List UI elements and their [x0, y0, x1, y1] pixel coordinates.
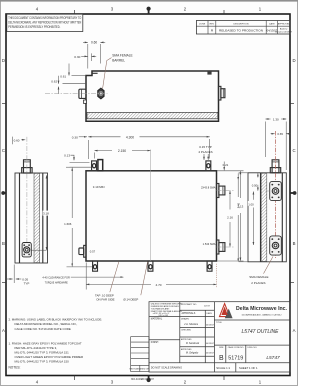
- svg-text:1.543 SMA: 1.543 SMA: [203, 242, 216, 246]
- dim 1.606 (left height): [66, 166, 70, 168]
- left view flange outline: [15, 173, 48, 263]
- callout tap deep far side: [110, 262, 119, 292]
- dim 4.300: [87, 140, 89, 159]
- svg-text:R. Sandoval: R. Sandoval: [186, 342, 199, 345]
- svg-text:SHEET 1 OF 1: SHEET 1 OF 1: [239, 366, 258, 370]
- svg-text:DO NOT SCALE DRAWING: DO NOT SCALE DRAWING: [151, 366, 182, 369]
- revision table: [196, 21, 292, 35]
- svg-text:4 PLACES: 4 PLACES: [198, 150, 212, 154]
- title block signature column: [181, 303, 215, 355]
- svg-text:1. FINISH: HAZE GRAY EPOXY POL: 1. FINISH: HAZE GRAY EPOXY POLYAMIDE TOP…: [9, 341, 82, 345]
- left view face connector: [22, 243, 31, 257]
- dim 2.150: [95, 150, 113, 152]
- right view top SMA stub: [272, 160, 279, 173]
- svg-text:FINISH: FINISH: [151, 342, 159, 344]
- svg-text:2.46: 2.46: [237, 202, 241, 208]
- svg-text:Delta Microwave Inc.: Delta Microwave Inc.: [236, 306, 288, 312]
- side view right connector: [219, 86, 221, 100]
- dim 2.46 (right view height): [237, 173, 239, 180]
- dim 0.61 (left stack): [72, 75, 87, 77]
- svg-text:4.300: 4.300: [126, 135, 134, 139]
- svg-text:2.150: 2.150: [118, 149, 126, 153]
- svg-text:L5747: L5747: [266, 355, 280, 361]
- svg-text:3.18: 3.18: [43, 212, 49, 216]
- svg-text:A: A: [2, 328, 5, 333]
- top view stub top-left: [98, 160, 103, 171]
- svg-text:B: B: [2, 241, 5, 246]
- centering mark top: [147, 7, 151, 14]
- svg-text:PERMISSION IS EXPRESSLY PROHIB: PERMISSION IS EXPRESSLY PROHIBITED.: [8, 25, 60, 29]
- top view right face connector A: [217, 184, 219, 198]
- svg-text:DESCRIPTION: DESCRIPTION: [234, 23, 249, 25]
- svg-text:0.60: 0.60: [91, 41, 97, 45]
- dim 0.62 (left stack): [63, 83, 87, 85]
- svg-text:SMA FEMALE: SMA FEMALE: [112, 54, 132, 58]
- svg-text:CAGE CODE NO.: CAGE CODE NO.: [228, 346, 245, 349]
- svg-text:.XXX ±.005: .XXX ±.005: [158, 315, 169, 317]
- svg-text:0.15 TYP: 0.15 TYP: [199, 145, 211, 149]
- left view body edges: [19, 173, 21, 263]
- svg-text:1001 AVENIDA ACASO, CAMARILLO: 1001 AVENIDA ACASO, CAMARILLO CA 93012: [242, 313, 283, 316]
- dim 0.65 (half width): [271, 133, 275, 135]
- top view right face connector B: [217, 240, 219, 254]
- svg-text:2. MARKING: USING LABEL OR BLA: 2. MARKING: USING LABEL OR BLACK INK/EPO…: [9, 318, 103, 322]
- side view edge screw: [84, 100, 87, 103]
- centering mark left: [1, 191, 6, 195]
- right view body edges: [260, 173, 262, 262]
- svg-text:0.60: 0.60: [14, 139, 20, 143]
- side view left SMA barrel: [79, 89, 86, 98]
- svg-text:0.30: 0.30: [72, 135, 78, 139]
- svg-text:04/13/07: 04/13/07: [206, 343, 215, 345]
- svg-text:Andrew: Andrew: [280, 27, 288, 30]
- top view tab top-right: [206, 161, 211, 171]
- svg-text:A: A: [293, 328, 296, 333]
- svg-text:DELTA MICROWAVE. ANY REPRODUCT: DELTA MICROWAVE. ANY REPRODUCTION WITHOU…: [8, 21, 81, 25]
- svg-text:CAGE CODE NO. 51719 AND DATE C: CAGE CODE NO. 51719 AND DATE CODE: [15, 327, 71, 331]
- svg-text:0.30: 0.30: [74, 55, 80, 59]
- svg-text:SIZE: SIZE: [219, 347, 224, 349]
- callout dia .14 deep: [141, 262, 148, 295]
- svg-text:M. Delgado: M. Delgado: [186, 351, 199, 354]
- svg-text:NOTES:: NOTES:: [9, 366, 21, 370]
- right view face connector 1: [270, 181, 282, 200]
- top view body: [86, 171, 217, 261]
- centering mark bottom: [147, 376, 151, 383]
- svg-text:MATERIAL: MATERIAL: [151, 318, 163, 321]
- svg-text:DWG. NO.: DWG. NO.: [248, 347, 258, 349]
- svg-text:2 PLACES: 2 PLACES: [251, 281, 265, 285]
- svg-text:0.13: 0.13: [64, 153, 70, 157]
- svg-text:0.50: 0.50: [252, 184, 258, 188]
- dim 1.30 (right view width): [265, 122, 267, 158]
- svg-text:2X43.8 SMA: 2X43.8 SMA: [201, 185, 216, 189]
- dim 3.18 (left view height): [32, 249, 47, 251]
- svg-text:TORQUE HARDWARE: TORQUE HARDWARE: [45, 280, 68, 284]
- svg-text:D: D: [2, 58, 5, 63]
- svg-text:ON FAR SIDE: ON FAR SIDE: [96, 298, 114, 302]
- svg-text:DRAWN: DRAWN: [181, 318, 189, 321]
- size cage dwg row: [219, 346, 257, 349]
- logo delta triangles: [220, 304, 233, 319]
- extension centerline through body: [150, 150, 152, 262]
- top view tab bottom-right: [207, 261, 212, 271]
- dim 3.13 (body width): [217, 170, 244, 172]
- side view cover plate hatched: [87, 112, 218, 118]
- svg-text:APPROVED: APPROVED: [278, 22, 291, 25]
- svg-text:ZONE: ZONE: [199, 23, 206, 25]
- svg-text:RELEASED TO PRODUCTION: RELEASED TO PRODUCTION: [219, 29, 263, 33]
- left view hatched wall: [34, 173, 40, 262]
- svg-text:B: B: [219, 355, 224, 362]
- right view red dashed centerline: [275, 131, 277, 258]
- top view tab bottom-left: [93, 261, 98, 271]
- svg-text:MIL-DTL-24441/20 TYP 3, FORMUL: MIL-DTL-24441/20 TYP 3, FORMULA 151: [15, 351, 70, 355]
- svg-text:0.21: 0.21: [223, 163, 229, 167]
- svg-text:4.70: 4.70: [155, 283, 161, 287]
- svg-text:PER MIL-DTL-24441/20 TYPE 3,: PER MIL-DTL-24441/20 TYPE 3,: [15, 346, 58, 350]
- svg-text:L5747 OUTLINE: L5747 OUTLINE: [242, 329, 280, 335]
- svg-text:SMA FEMALE: SMA FEMALE: [249, 275, 268, 279]
- svg-text:12747: 12747: [204, 305, 211, 307]
- proprietary note box: [7, 14, 83, 31]
- svg-text:51719: 51719: [228, 355, 243, 361]
- svg-text:0.57: 0.57: [90, 249, 96, 253]
- svg-text:C: C: [2, 148, 5, 153]
- svg-text:D: D: [292, 58, 295, 63]
- svg-text:DATE: DATE: [269, 22, 275, 25]
- top view tab top-left: [92, 161, 97, 171]
- right view flange outline: [248, 173, 286, 262]
- svg-text:1.606: 1.606: [64, 222, 72, 226]
- svg-text:Ø.14 DEEP: Ø.14 DEEP: [123, 297, 138, 301]
- svg-text:SCALE 1:1: SCALE 1:1: [216, 366, 230, 370]
- left view top SMA stub: [24, 160, 31, 173]
- dim 0.60 (side view): [87, 44, 89, 69]
- svg-text:1.30: 1.30: [273, 117, 279, 121]
- svg-text:0.62: 0.62: [51, 80, 57, 84]
- svg-text:MIL-DTL-24441/22 TYP 3, FORMUL: MIL-DTL-24441/22 TYP 3, FORMULA 150: [15, 360, 70, 364]
- dim 0.05 TYP (left view): [13, 265, 15, 284]
- svg-text:04/13/07: 04/13/07: [206, 352, 215, 354]
- callout clearance holes: [71, 276, 124, 278]
- svg-text:B: B: [293, 241, 296, 246]
- dim 2.16 (connector spacing): [229, 191, 231, 210]
- top view tab bottom-center: [148, 261, 153, 271]
- svg-text:DATE: DATE: [207, 312, 213, 315]
- top view left face connector: [84, 245, 86, 257]
- svg-text:C: C: [292, 148, 295, 153]
- svg-text:REV: REV: [210, 23, 215, 25]
- svg-text:CHECKED: CHECKED: [181, 329, 192, 331]
- svg-text:APPROVED: APPROVED: [181, 338, 192, 341]
- svg-text:BARREL: BARREL: [112, 58, 125, 62]
- svg-text:TYP: TYP: [24, 282, 30, 286]
- right view face connector 2: [270, 236, 282, 255]
- svg-text:3.19 MIN: 3.19 MIN: [93, 185, 105, 189]
- right view hatched wall: [261, 173, 267, 261]
- side view centerline: [45, 93, 108, 95]
- svg-text:04/13/07: 04/13/07: [206, 325, 215, 327]
- svg-text:TITLE: TITLE: [216, 322, 222, 324]
- side view small vent mark: [207, 72, 211, 75]
- left view centerline: [26, 137, 28, 258]
- title block tolerance texts: [151, 304, 183, 370]
- svg-text:CONTRACT NO.: CONTRACT NO.: [181, 303, 197, 306]
- side view body outline: [86, 71, 219, 121]
- svg-text:0.61: 0.61: [60, 75, 66, 79]
- svg-text:APPROVALS: APPROVALS: [182, 312, 196, 315]
- svg-text:1.00: 1.00: [248, 202, 254, 206]
- centering mark right: [290, 191, 297, 195]
- svg-text:4-40 CLEARANCE FOR: 4-40 CLEARANCE FOR: [42, 276, 70, 280]
- svg-text:OVER LIGHT GREEN EPOXY POLYAMI: OVER LIGHT GREEN EPOXY POLYAMIDE PRIMER: [15, 355, 84, 359]
- connector centerlines right: [217, 190, 234, 192]
- side view notch step: [91, 71, 93, 76]
- svg-text:THIS DOCUMENT CONTAINS INFORMA: THIS DOCUMENT CONTAINS INFORMATION PROPR…: [8, 16, 81, 20]
- svg-text:DELTA MICROWAVE MODEL NO., SER: DELTA MICROWAVE MODEL NO., SERIAL NO.,: [15, 322, 78, 326]
- svg-text:0.65: 0.65: [277, 132, 283, 136]
- dim 4.70 (bottom overall): [215, 264, 217, 288]
- svg-text:ISO-D-WEB 04/13/07: ISO-D-WEB 04/13/07: [131, 378, 155, 381]
- svg-text:2.16: 2.16: [227, 216, 233, 220]
- svg-text:Morales 04/13/07: Morales 04/13/07: [275, 30, 293, 33]
- svg-text:J.A. Moreira: J.A. Moreira: [184, 322, 199, 326]
- svg-text:USED ON: USED ON: [140, 368, 150, 370]
- dim 1.00 (conn spacing): [252, 196, 254, 200]
- side view SMA hex nut face: [98, 88, 104, 99]
